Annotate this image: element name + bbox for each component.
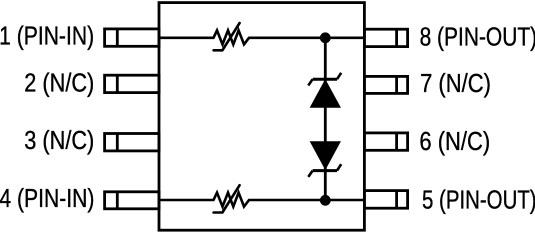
pin 6 box: [364, 133, 407, 150]
pin 5 box: [364, 191, 407, 209]
svg-text:1 (PIN-IN): 1 (PIN-IN): [0, 22, 94, 50]
wire bottom (pin4 to pin5) with varistor RV2 zigzag: [160, 193, 364, 207]
pin 1 box: [105, 29, 159, 46]
svg-text:3 (N/C): 3 (N/C): [24, 127, 94, 155]
svg-text:2 (N/C): 2 (N/C): [24, 69, 94, 97]
svg-text:6 (N/C): 6 (N/C): [419, 128, 490, 156]
svg-text:8 (PIN-OUT): 8 (PIN-OUT): [420, 23, 535, 51]
node junction top: [320, 32, 331, 43]
svg-text:4 (PIN-IN): 4 (PIN-IN): [0, 185, 94, 213]
svg-text:7 (N/C): 7 (N/C): [420, 70, 491, 98]
svg-text:5 (PIN-OUT): 5 (PIN-OUT): [422, 186, 535, 214]
pin 4 box: [105, 192, 159, 209]
wire top (pin1 to pin8) with varistor RV1 zigzag: [160, 30, 364, 44]
pin 2 box: [105, 75, 159, 92]
pin 8 box: [364, 29, 407, 46]
varistor RV1 diagonal stroke: [214, 23, 240, 50]
node junction bottom: [320, 195, 331, 206]
IC body U1: [159, 3, 364, 231]
wire vertical branch: [324, 38, 327, 200]
varistor RV2 diagonal stroke: [214, 185, 240, 212]
zener diode D2 (cathode down): [308, 142, 341, 177]
zener diode D1 (cathode up): [308, 73, 341, 108]
pin 7 box: [364, 76, 407, 93]
pin 3 box: [105, 134, 159, 151]
